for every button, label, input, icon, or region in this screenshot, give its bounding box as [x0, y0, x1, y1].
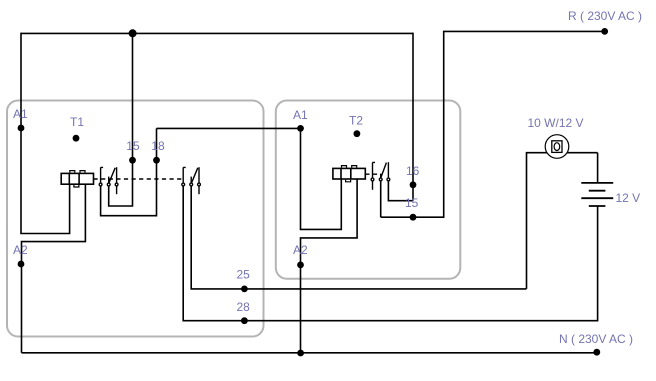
- svg-text:R ( 230V AC ): R ( 230V AC ): [568, 9, 642, 23]
- node A2 T1: [18, 261, 25, 268]
- svg-text:18: 18: [151, 139, 165, 153]
- wire top rail from A1-T1 to 16-line: [21, 32, 413, 34]
- svg-text:16: 16: [406, 164, 420, 178]
- wire T2 contact middle pin to 15: [380, 181, 382, 217]
- wire R to 15-T2: [381, 31, 605, 217]
- svg-text:T2: T2: [349, 114, 363, 128]
- wire battery top: [597, 153, 599, 183]
- node A1 T2: [297, 125, 304, 132]
- svg-text:15: 15: [126, 139, 140, 153]
- dashed linkage line T2: [365, 173, 380, 175]
- svg-text:A2: A2: [293, 243, 308, 257]
- svg-text:T1: T1: [70, 115, 84, 129]
- battery G1 12V: [581, 183, 613, 206]
- node N terminal: [593, 349, 600, 356]
- node 15 T2: [410, 214, 417, 221]
- svg-text:12 V: 12 V: [616, 191, 641, 205]
- node 28: [241, 317, 248, 324]
- lamp E1 10W/12V: [545, 135, 569, 159]
- timer box T2: [276, 101, 461, 279]
- node A2 T2: [297, 262, 304, 269]
- wire 18-T1 to A1-T2: [157, 127, 301, 129]
- node junction top rail / 15: [129, 29, 137, 37]
- wire 15-T1 vertical: [109, 33, 133, 206]
- wire A1-T1 branch: [21, 33, 70, 234]
- node T2 marker: [354, 130, 361, 137]
- wire A2-T2 branch: [301, 180, 358, 353]
- contact T1.1 (changeover 15-18): [99, 167, 118, 194]
- wire 25 from contact middle pin to lamp branch: [191, 186, 526, 289]
- wire bottom rail N: [22, 352, 597, 354]
- node T1 marker: [73, 135, 80, 142]
- wire A1-T2 branch: [301, 128, 342, 229]
- contact T1.2 (changeover 25-28): [182, 167, 201, 194]
- dashed linkage line T1: [94, 178, 184, 180]
- timer box T1: [7, 101, 264, 337]
- wire A2-T1 branch: [22, 185, 86, 353]
- svg-text:N ( 230V AC ): N ( 230V AC ): [559, 332, 633, 346]
- svg-text:A1: A1: [13, 107, 28, 121]
- node 16 T2: [410, 181, 417, 188]
- wire 16 vertical line: [412, 33, 414, 201]
- svg-text:28: 28: [237, 300, 251, 314]
- svg-text:A2: A2: [13, 243, 28, 257]
- node 18 T1: [153, 157, 160, 164]
- wire 28 from contact left pin to battery bottom: [183, 186, 597, 321]
- svg-text:A1: A1: [293, 108, 308, 122]
- node junction bottom rail: [297, 350, 304, 357]
- node R terminal: [601, 28, 608, 35]
- node 25: [241, 286, 248, 293]
- wire 18-T1 vertical to contact left pin: [101, 128, 157, 215]
- svg-text:10 W/12 V: 10 W/12 V: [528, 116, 584, 130]
- node 15 T1: [129, 157, 136, 164]
- wire T2 contact right pin to 16: [388, 181, 413, 201]
- svg-text:25: 25: [237, 268, 251, 282]
- coil K2 (timer T2 coil): [333, 166, 365, 182]
- coil K1 (timer T1 coil): [61, 171, 93, 187]
- contact T2.1 (changeover 15-16): [371, 162, 390, 190]
- node A1 T1: [18, 125, 25, 132]
- wire lamp branch vertical: [527, 153, 598, 289]
- svg-text:15: 15: [405, 196, 419, 210]
